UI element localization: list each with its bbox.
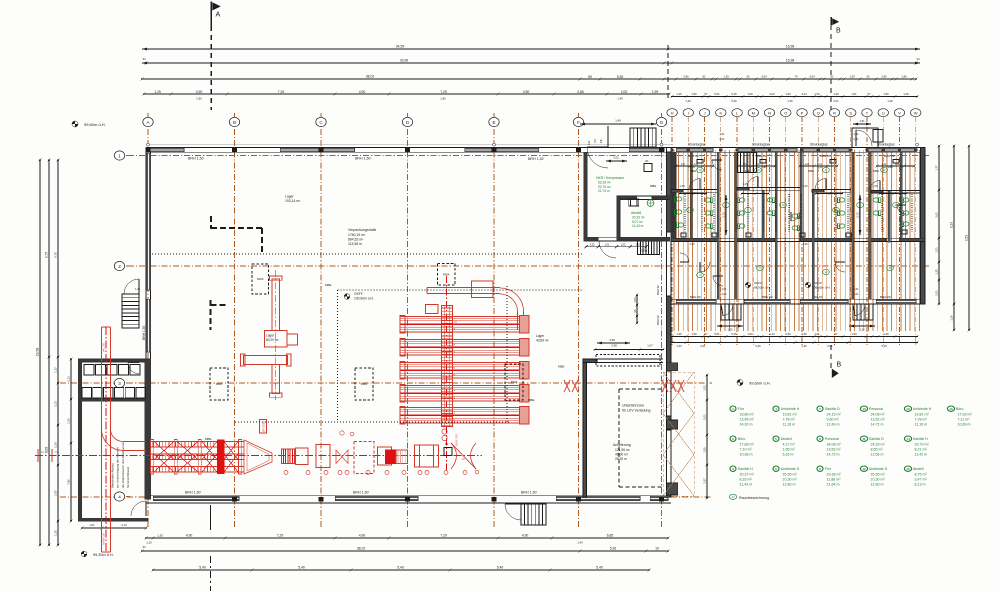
svg-text:1,25: 1,25 [154, 90, 161, 94]
svg-text:2,01: 2,01 [833, 99, 839, 103]
svg-text:Büro: Büro [738, 437, 746, 441]
dock top wall [583, 358, 663, 360]
svg-text:Umkleide H: Umkleide H [913, 407, 932, 411]
svg-text:1,01: 1,01 [743, 163, 748, 166]
svg-text:5,26: 5,26 [881, 344, 887, 348]
svg-text:12,90 m: 12,90 m [871, 482, 884, 486]
svg-text:10 Stg: 10 Stg [640, 250, 648, 253]
svg-text:7,29: 7,29 [277, 534, 284, 538]
svg-text:RWA: RWA [216, 382, 223, 386]
svg-text:MBE: MBE [873, 169, 879, 173]
svg-text:12: 12 [824, 270, 828, 274]
svg-text:J: J [704, 110, 706, 115]
small df box [444, 448, 452, 456]
svg-text:1,50: 1,50 [747, 92, 753, 96]
svg-text:OKFF: OKFF [354, 292, 363, 296]
svg-text:1,26: 1,26 [903, 92, 909, 96]
svg-text:2: 2 [732, 437, 734, 441]
wing room number markers [697, 167, 704, 172]
svg-text:1,51: 1,51 [935, 247, 939, 253]
conveyor left block plates [151, 440, 154, 475]
heavy section jog top [210, 216, 212, 229]
svg-text:1,90: 1,90 [196, 97, 202, 101]
svg-text:48,00 m²: 48,00 m² [615, 452, 629, 456]
tail circles [442, 429, 447, 434]
pallet rack rows [400, 317, 529, 333]
svg-text:57: 57 [868, 92, 871, 96]
section marker B middle [830, 345, 832, 368]
svg-text:7,29: 7,29 [440, 534, 447, 538]
svg-text:1,17: 1,17 [54, 367, 58, 373]
svg-text:MBE: MBE [745, 169, 751, 173]
legend room 15 Abstell [904, 466, 911, 471]
svg-text:4,90: 4,90 [196, 90, 203, 94]
svg-text:11: 11 [862, 437, 866, 441]
svg-text:1,51: 1,51 [703, 385, 707, 391]
svg-text:10: 10 [454, 320, 458, 324]
svg-text:S: S [849, 110, 852, 115]
svg-text:3: 3 [118, 381, 121, 386]
svg-text:3,62: 3,62 [935, 212, 939, 218]
hall right wall [665, 148, 667, 497]
wing top wall [671, 147, 925, 149]
svg-text:74: 74 [795, 75, 798, 79]
svg-text:9,75: 9,75 [54, 252, 58, 258]
svg-text:5,01: 5,01 [714, 332, 720, 336]
row grid axes 1-3 [128, 155, 930, 157]
svg-text:38,02: 38,02 [366, 75, 375, 79]
green vent symbol [647, 200, 654, 207]
hall bottom wall [146, 495, 671, 497]
svg-text:95: 95 [588, 75, 592, 79]
legend room 10 Personal [860, 406, 867, 411]
svg-text:1,01: 1,01 [613, 156, 619, 160]
svg-text:H: H [671, 110, 674, 115]
svg-text:8,13 m: 8,13 m [915, 482, 926, 486]
svg-text:1,26: 1,26 [685, 99, 691, 103]
svg-text:1,01: 1,01 [851, 92, 857, 96]
striped box 1 [282, 449, 295, 464]
legend room 9 Flur [817, 466, 823, 471]
legend room 7 Sanitär D [817, 406, 823, 411]
dimension line 33,99 [142, 62, 920, 64]
svg-text:O: O [784, 110, 787, 115]
svg-text:1,26: 1,26 [801, 344, 807, 348]
svg-text:Umkleide D: Umkleide D [781, 467, 800, 471]
HKR block door bottom [599, 241, 616, 258]
svg-text:92: 92 [867, 75, 870, 79]
svg-text:Unterfahrzone: Unterfahrzone [622, 404, 644, 408]
svg-text:5,25: 5,25 [731, 92, 737, 96]
svg-text:BRH 1,50: BRH 1,50 [355, 157, 371, 161]
svg-text:BRH 90: BRH 90 [690, 295, 701, 299]
svg-text:MBE: MBE [205, 437, 212, 441]
wing sanitary partitions [672, 194, 674, 232]
svg-text:5,01: 5,01 [714, 92, 720, 96]
svg-text:7,86: 7,86 [67, 479, 71, 485]
svg-text:7,29: 7,29 [440, 90, 447, 94]
svg-text:4,90: 4,90 [359, 90, 366, 94]
wing middle wall [671, 237, 925, 239]
svg-text:für Einrichtband: für Einrichtband [126, 467, 130, 488]
svg-text:2,24: 2,24 [769, 332, 775, 336]
svg-text:2,26: 2,26 [54, 442, 58, 448]
svg-text:4,90: 4,90 [186, 534, 193, 538]
svg-text:EB: EB [599, 139, 603, 143]
legend room 12 Umkleide D [860, 466, 867, 471]
legend key Raumbezeichnung [729, 494, 736, 499]
svg-text:Abstell: Abstell [781, 437, 792, 441]
svg-text:34,08 m²: 34,08 m² [871, 412, 886, 416]
svg-text:7: 7 [819, 407, 821, 411]
svg-text:1,50: 1,50 [691, 92, 697, 96]
svg-text:10: 10 [756, 168, 760, 172]
svg-text:4,90: 4,90 [522, 534, 529, 538]
svg-text:2,03: 2,03 [769, 92, 775, 96]
hall right small dims [636, 295, 638, 323]
svg-text:MBE: MBE [650, 184, 656, 188]
left vertical dimension lines [39, 160, 41, 545]
svg-text:Sanitär D: Sanitär D [869, 437, 884, 441]
svg-text:1,39: 1,39 [817, 165, 823, 169]
hall door at annex [131, 501, 146, 516]
bowtie valve [336, 450, 348, 464]
svg-text:1,49: 1,49 [617, 97, 623, 101]
svg-text:I: I [688, 110, 689, 115]
svg-text:12,56 m: 12,56 m [871, 452, 884, 456]
interior stair left [122, 294, 139, 328]
wing interior walls [690, 152, 692, 238]
svg-text:1,50: 1,50 [883, 92, 889, 96]
svg-text:1,51: 1,51 [859, 119, 865, 123]
svg-text:15: 15 [906, 467, 910, 471]
svg-text:2,01: 2,01 [853, 137, 859, 141]
svg-text:1,50: 1,50 [785, 92, 791, 96]
svg-text:25,95 m²: 25,95 m² [871, 472, 886, 476]
small caster circles [284, 471, 288, 475]
conveyor left block roller ticks [152, 442, 154, 448]
svg-text:N: N [768, 110, 771, 115]
dock right dim line [706, 375, 708, 498]
svg-text:Personal: Personal [825, 437, 839, 441]
svg-text:5,26: 5,26 [610, 547, 617, 551]
svg-text:BRH 90: BRH 90 [688, 154, 699, 158]
svg-text:1,39: 1,39 [723, 75, 729, 79]
svg-text:43,89 m²: 43,89 m² [536, 338, 549, 342]
svg-text:Abstell: Abstell [631, 211, 641, 215]
svg-text:Strukturglas: Strukturglas [877, 142, 895, 146]
legend room 8 Personal [817, 436, 823, 441]
svg-text:1,26: 1,26 [887, 99, 893, 103]
svg-text:BRH 90: BRH 90 [656, 315, 660, 325]
svg-text:24,92 m: 24,92 m [740, 422, 753, 426]
svg-text:RWA: RWA [257, 277, 264, 281]
svg-text:1,40: 1,40 [577, 541, 583, 545]
svg-text:6: 6 [775, 467, 777, 471]
svg-text:K: K [719, 110, 722, 115]
svg-text:1,01: 1,01 [605, 243, 610, 246]
svg-text:14,72 m: 14,72 m [827, 452, 840, 456]
box 2 [296, 448, 309, 465]
level marker 99,30 bottom left [81, 551, 87, 557]
interior stair wing [738, 152, 757, 172]
svg-text:11,88 m²: 11,88 m² [827, 477, 842, 481]
svg-text:MBE: MBE [528, 398, 535, 402]
legend room 5 Abstell [773, 436, 779, 441]
svg-text:Anlieferung: Anlieferung [613, 443, 631, 447]
dimension line wing bays [672, 96, 917, 98]
bottom overall row 38,02 [142, 550, 668, 552]
svg-text:1,51: 1,51 [719, 132, 725, 136]
wing corridor dim arrows [859, 195, 861, 235]
svg-text:7,78 m²: 7,78 m² [783, 417, 796, 421]
bottom bay dimension row [146, 537, 668, 539]
svg-text:2,01: 2,01 [721, 292, 727, 296]
svg-text:1,25: 1,25 [801, 332, 807, 336]
svg-text:HKR / Kompressor: HKR / Kompressor [596, 176, 625, 180]
svg-text:9,29: 9,29 [950, 222, 954, 228]
svg-text:1,26: 1,26 [787, 99, 793, 103]
svg-text:MBE: MBE [808, 169, 814, 173]
svg-text:MBE: MBE [325, 283, 332, 287]
red dim marks left [37, 449, 39, 462]
svg-text:20,37 m²: 20,37 m² [740, 472, 755, 476]
svg-text:V: V [898, 110, 901, 115]
svg-text:3,38: 3,38 [609, 338, 615, 342]
svg-text:12: 12 [882, 168, 886, 172]
legend room 13 Umkleide H [904, 406, 911, 411]
svg-text:11,16 m: 11,16 m [783, 422, 796, 426]
svg-text:Sanitär D: Sanitär D [825, 407, 840, 411]
legend room 11 Sanitär D [860, 436, 867, 441]
svg-text:21,74 m: 21,74 m [598, 189, 610, 193]
svg-text:1,35: 1,35 [935, 269, 939, 275]
svg-text:3,38: 3,38 [611, 344, 617, 348]
svg-text:7,10 m²: 7,10 m² [740, 447, 753, 451]
svg-text:14,72 m: 14,72 m [871, 422, 884, 426]
svg-text:10: 10 [862, 407, 866, 411]
svg-text:92: 92 [703, 75, 706, 79]
row bubbles 1-4 [114, 151, 124, 160]
svg-text:1,01: 1,01 [805, 163, 810, 166]
wing top wall mullion marks [671, 148, 674, 151]
svg-text:100,90m ü.H.: 100,90m ü.H. [354, 297, 374, 301]
annex lockers row2 [82, 388, 91, 399]
svg-text:B: B [233, 120, 236, 125]
svg-text:Lager: Lager [285, 195, 295, 199]
svg-text:2,86: 2,86 [881, 75, 887, 79]
svg-text:2,00: 2,00 [621, 90, 628, 94]
svg-text:1,50: 1,50 [691, 332, 697, 336]
wing toilets [674, 197, 682, 202]
svg-text:5,26: 5,26 [731, 99, 737, 103]
RWA boxes [252, 264, 269, 294]
svg-text:24,15 m²: 24,15 m² [827, 412, 842, 416]
svg-text:Sanitär H: Sanitär H [738, 467, 753, 471]
svg-text:Sanitär H: Sanitär H [913, 437, 928, 441]
svg-text:5,40: 5,40 [397, 566, 404, 570]
svg-text:2,86: 2,86 [683, 75, 689, 79]
svg-text:1,39: 1,39 [849, 75, 855, 79]
svg-text:4: 4 [775, 407, 777, 411]
pallet rack top conveyor [427, 287, 500, 289]
svg-text:1,26: 1,26 [676, 344, 682, 348]
red duct vertical [101, 327, 103, 552]
svg-text:5,54: 5,54 [761, 75, 767, 79]
svg-text:3,47 m²: 3,47 m² [915, 477, 928, 481]
heavy section jog bottom [210, 300, 212, 330]
svg-text:2,86: 2,86 [577, 90, 584, 94]
annex right wall dark segment [145, 359, 151, 499]
svg-text:2,01: 2,01 [636, 243, 641, 246]
hall top wall columns [146, 143, 671, 145]
svg-text:1,35: 1,35 [157, 534, 163, 538]
svg-text:1,01: 1,01 [621, 243, 626, 246]
grid bubbles A-G [143, 117, 153, 126]
svg-text:12,80 m: 12,80 m [783, 482, 796, 486]
svg-text:894,52 m²: 894,52 m² [348, 237, 364, 241]
wing dense glazing lines [673, 150, 675, 331]
section marker B top [830, 17, 832, 25]
svg-text:R: R [833, 110, 836, 115]
svg-text:1,26: 1,26 [727, 328, 733, 332]
wing interior dim chains [676, 165, 713, 167]
svg-text:24: 24 [916, 57, 920, 61]
svg-text:VO: VO [593, 139, 597, 143]
svg-text:1760,19 m²: 1760,19 m² [348, 233, 366, 237]
svg-text:OKFF: OKFF [754, 281, 762, 285]
red duct elbow [102, 429, 124, 451]
section A line bottom [210, 505, 212, 530]
sink abstell [629, 199, 639, 206]
svg-text:2,13: 2,13 [67, 376, 71, 382]
svg-text:8,08: 8,08 [45, 447, 49, 453]
svg-text:1,39: 1,39 [887, 165, 893, 169]
svg-text:16: 16 [888, 266, 892, 270]
wing grid axes H-W [671, 117, 673, 345]
svg-text:57: 57 [705, 92, 708, 96]
svg-text:24,39 m²: 24,39 m² [871, 442, 886, 446]
striped box 2 [386, 450, 396, 464]
svg-text:B: B [837, 362, 842, 369]
svg-text:B: B [836, 28, 841, 35]
svg-text:34,59: 34,59 [396, 45, 405, 49]
row grid axis 4 stub [60, 496, 146, 498]
dotted zone storage [337, 290, 339, 422]
svg-text:2,73: 2,73 [722, 212, 726, 218]
svg-text:1,77: 1,77 [935, 165, 939, 171]
svg-text:5,54: 5,54 [809, 75, 815, 79]
svg-text:11: 11 [825, 168, 828, 172]
section marker A top [210, 2, 212, 27]
svg-text:1,01: 1,01 [882, 163, 887, 166]
svg-text:8,21 m²: 8,21 m² [915, 447, 928, 451]
svg-text:1,26: 1,26 [676, 92, 682, 96]
left small dims near annex [70, 359, 72, 521]
svg-text:BRH 90: BRH 90 [756, 154, 767, 158]
svg-text:Werdender Abstau: Werdender Abstau [111, 463, 115, 488]
svg-text:4: 4 [118, 494, 121, 499]
svg-text:Strukturglas: Strukturglas [752, 142, 770, 146]
svg-text:99,30m ü.H.: 99,30m ü.H. [93, 553, 114, 557]
wing level markers [745, 282, 750, 287]
exterior stair bottom [505, 504, 521, 520]
svg-text:33,99: 33,99 [400, 59, 409, 63]
svg-text:Flur: Flur [825, 467, 832, 471]
red elbow connector [123, 450, 146, 452]
svg-text:Raumbezeichnung: Raumbezeichnung [739, 496, 769, 500]
svg-text:1,26: 1,26 [676, 332, 682, 336]
svg-text:1,35: 1,35 [802, 242, 808, 246]
wing doors [689, 179, 700, 190]
svg-text:Strukturglas: Strukturglas [810, 142, 828, 146]
svg-text:12,49 m: 12,49 m [827, 422, 840, 426]
svg-text:1,50: 1,50 [851, 332, 857, 336]
legend room 16 Büro [947, 406, 954, 411]
svg-text:zur Unterbringung der Antriebe: zur Unterbringung der Antriebe [116, 447, 120, 488]
svg-text:BRH 1,52: BRH 1,52 [528, 157, 544, 161]
svg-text:ELT: ELT [587, 140, 591, 145]
svg-text:4,90: 4,90 [359, 534, 366, 538]
svg-text:8: 8 [819, 437, 821, 441]
svg-text:BRH 90: BRH 90 [884, 154, 895, 158]
svg-text:19,81 m²: 19,81 m² [915, 412, 930, 416]
svg-text:5,40: 5,40 [596, 566, 603, 570]
svg-text:1,26: 1,26 [859, 328, 865, 332]
svg-text:16: 16 [949, 407, 953, 411]
svg-text:2: 2 [118, 264, 121, 269]
svg-text:1,25: 1,25 [146, 541, 152, 545]
svg-text:der Elektrokarren und Abfallto: der Elektrokarren und Abfalltonnen [121, 441, 125, 488]
svg-text:34: 34 [142, 57, 146, 61]
svg-text:2,26: 2,26 [67, 418, 71, 424]
svg-text:für LKV Verladung: für LKV Verladung [622, 409, 650, 413]
svg-text:1,51: 1,51 [853, 132, 859, 136]
truck ramp hatch [663, 372, 694, 496]
svg-text:6,85: 6,85 [607, 534, 614, 538]
svg-text:Verpackungshalle: Verpackungshalle [348, 228, 376, 232]
svg-text:M: M [752, 110, 755, 115]
legend room 2 Büro [730, 436, 736, 441]
svg-text:1,07: 1,07 [647, 344, 653, 348]
svg-text:1: 1 [118, 153, 121, 158]
svg-text:7,78 m²: 7,78 m² [915, 417, 928, 421]
svg-text:1,01: 1,01 [853, 287, 859, 291]
svg-text:10,98 m: 10,98 m [740, 452, 753, 456]
dims below HKR block [586, 246, 646, 248]
svg-text:11,43 m: 11,43 m [740, 482, 753, 486]
svg-text:5: 5 [775, 437, 777, 441]
svg-text:92: 92 [747, 75, 750, 79]
interior stair below abstell [638, 241, 660, 254]
svg-text:Flur: Flur [738, 407, 745, 411]
svg-text:34,08 m²: 34,08 m² [827, 442, 842, 446]
svg-text:13,52 m²: 13,52 m² [827, 447, 842, 451]
svg-text:5,26: 5,26 [755, 344, 761, 348]
legend room 3 Sanitär H [730, 466, 736, 471]
svg-text:F: F [577, 120, 580, 125]
svg-text:1,49: 1,49 [615, 119, 621, 123]
svg-text:BRH 1,50: BRH 1,50 [353, 490, 369, 494]
svg-text:2,01: 2,01 [935, 290, 939, 296]
svg-text:20: 20 [645, 159, 649, 163]
svg-text:3: 3 [732, 467, 734, 471]
svg-text:1,50: 1,50 [633, 297, 637, 303]
svg-text:1,50: 1,50 [814, 92, 820, 96]
annex bottom dims [82, 527, 146, 529]
svg-text:193,14 m²: 193,14 m² [285, 199, 301, 203]
HKR abstell divider walls [617, 195, 670, 197]
